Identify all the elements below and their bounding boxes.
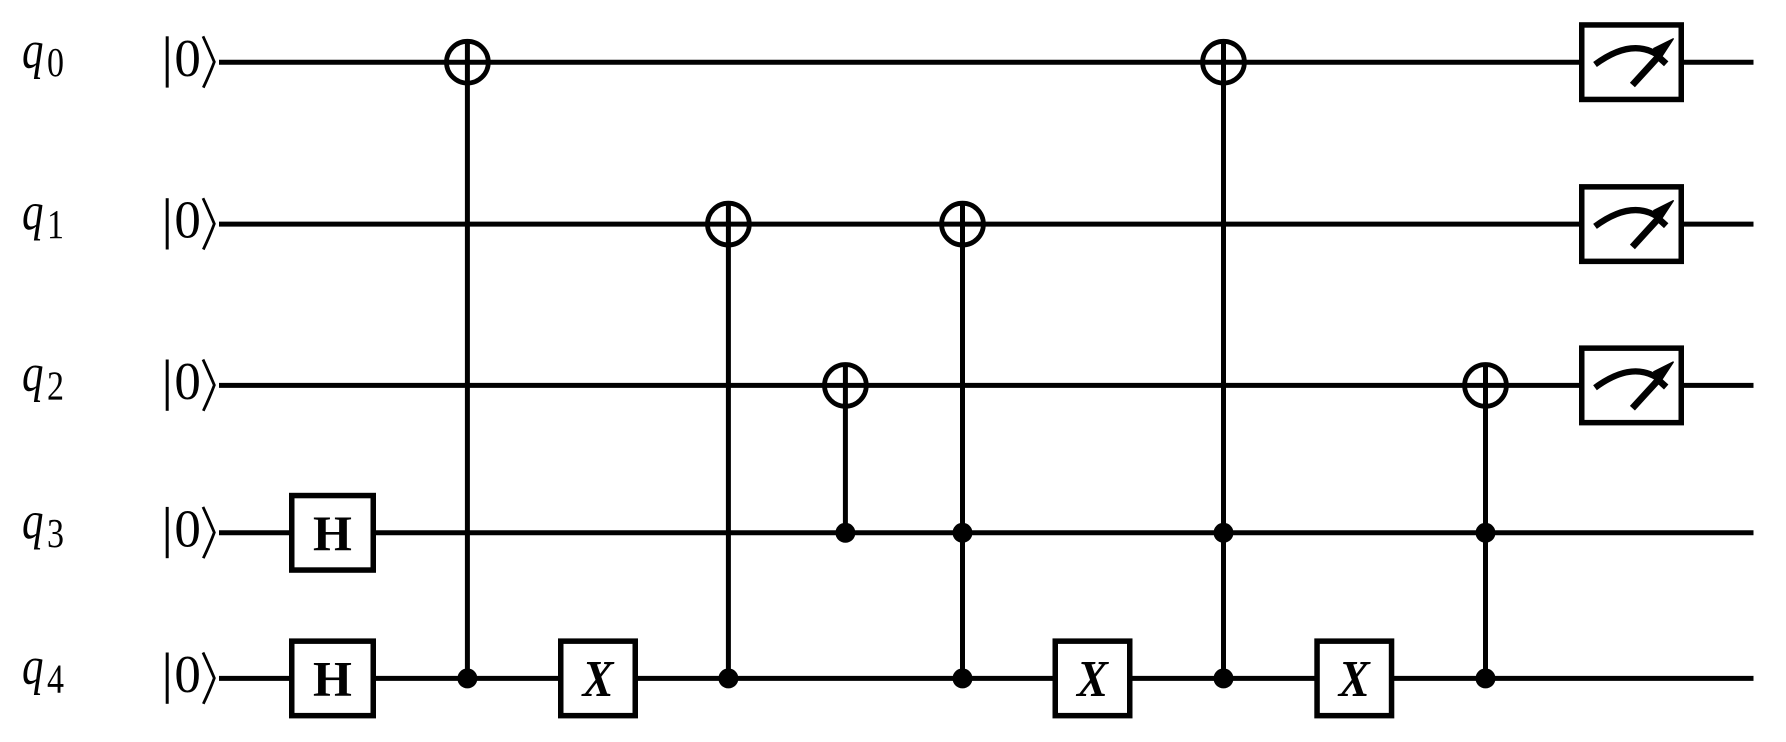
svg-text:q: q [22,638,44,696]
CX3 control dot on q3 [835,523,855,543]
CX5 control dot on q3 [1214,523,1234,543]
CX3 vertical wire (q3 control to q2 target) [843,363,848,533]
svg-text:0: 0 [174,646,201,704]
qubit label q3 [22,492,64,556]
ket |0> q2 [167,353,214,411]
wire q3 [219,530,1754,535]
svg-text:1: 1 [47,201,64,247]
qubit label q0 [22,21,64,85]
wire q2 [219,383,1754,388]
CX5 control dot on q4 [1214,668,1234,688]
svg-text:H: H [313,505,352,561]
CX1 target on q0 [447,41,489,83]
CX4 target on q1 [942,203,984,245]
wire q1 [219,222,1754,227]
CX2 target on q1 [708,203,750,245]
H gate on q4 [292,641,374,716]
H gate on q3 [292,496,374,571]
CX2 control dot on q4 [718,668,738,688]
ket |0> q1 [167,192,214,250]
CX5 vertical wire (q3,q4 controls to q0 target) [1221,40,1226,679]
CX6 vertical wire (q3,q4 controls to q2 target) [1483,363,1488,679]
svg-text:q: q [22,21,44,79]
svg-text:q: q [22,345,44,403]
CX6 control dot on q4 [1476,668,1496,688]
ket |0> q3 [167,500,214,558]
svg-text:0: 0 [174,500,201,558]
wire q0 [219,60,1754,65]
svg-text:q: q [22,183,44,241]
svg-text:3: 3 [47,510,64,556]
CX1 vertical wire (q4 control to q0 target) [465,40,470,679]
X gate 1 on q4 [561,641,636,716]
svg-text:4: 4 [47,655,64,701]
CX1 control dot on q4 [457,668,477,688]
CX3 target on q2 [825,365,867,407]
CX6 target on q2 [1465,365,1507,407]
qubit label q1 [22,183,64,247]
svg-text:0: 0 [174,192,201,250]
measurement box q1 [1582,187,1682,261]
CX5 target on q0 [1203,41,1245,83]
svg-text:2: 2 [47,362,64,408]
measurement box q0 [1582,25,1682,100]
CX2 vertical wire (q4 control to q1 target) [726,201,731,678]
ket |0> q0 [167,30,214,88]
svg-text:X: X [581,651,615,708]
wire q4 [219,676,1754,681]
measurement box q2 [1582,348,1682,423]
CX4 control dot on q4 [953,668,973,688]
qubit label q2 [22,345,64,409]
svg-text:X: X [1337,651,1371,708]
qubit label q4 [22,638,64,702]
svg-text:0: 0 [174,353,201,411]
svg-text:q: q [22,492,44,550]
X gate 3 on q4 [1317,641,1392,716]
ket |0> q4 [167,646,214,704]
svg-text:H: H [313,650,352,706]
CX4 control dot on q3 [953,523,973,543]
svg-text:0: 0 [47,39,64,85]
svg-text:X: X [1075,651,1109,708]
svg-text:0: 0 [174,30,201,88]
CX4 vertical wire (q3,q4 controls to q1 target) [960,201,965,678]
X gate 2 on q4 [1055,641,1130,716]
CX6 control dot on q3 [1476,523,1496,543]
